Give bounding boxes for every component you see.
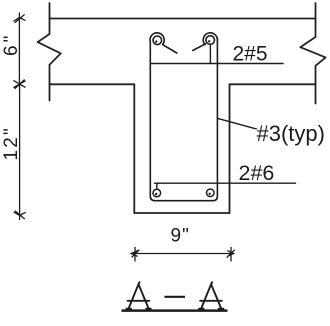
right break line <box>300 3 325 104</box>
slab bottom edge left <box>50 83 135 85</box>
top bar right (2#5) <box>206 36 215 45</box>
dimension line 9 inch <box>131 253 234 255</box>
arrow left of 9in <box>132 250 140 257</box>
arrow double at 6/12 boundary <box>14 80 25 89</box>
arrow down at 12in bottom <box>14 211 25 219</box>
left break line <box>38 3 61 101</box>
section title underline <box>122 309 228 312</box>
bottom bar right (2#6) <box>207 189 215 197</box>
section letter A right <box>199 282 223 309</box>
svg-text:6": 6" <box>1 33 22 56</box>
bottom bar left (2#6) <box>153 189 161 197</box>
stirrup #3 left leg <box>150 42 155 201</box>
leader 2#6 <box>155 183 296 189</box>
stirrup #3 right leg <box>213 38 217 201</box>
web right edge <box>229 84 231 213</box>
stirrup right hook <box>193 33 218 51</box>
svg-text:2#6: 2#6 <box>239 161 275 185</box>
web bottom edge <box>134 212 229 214</box>
svg-text:2#5: 2#5 <box>233 43 268 66</box>
svg-text:9": 9" <box>171 226 190 247</box>
web left edge <box>133 84 135 213</box>
arrow up at 6in top <box>14 15 25 23</box>
slab bottom edge right <box>230 83 316 85</box>
dimension line 6 inch <box>18 13 20 84</box>
svg-text:12": 12" <box>1 126 22 160</box>
section letter A left <box>126 282 150 309</box>
extension tick right <box>230 248 232 262</box>
svg-text:#3(typ): #3(typ) <box>257 121 325 146</box>
leader 2#5 <box>150 45 283 64</box>
stirrup #3 bottom <box>155 200 213 202</box>
section dash <box>165 296 186 298</box>
arrow right of 9in <box>227 250 234 257</box>
dimension line 12 inch <box>19 84 21 220</box>
stirrup left hook <box>150 33 177 53</box>
slab top edge <box>50 18 316 20</box>
top bar left (2#5) <box>153 36 162 45</box>
leader #3(typ) <box>217 118 256 129</box>
extension tick left <box>134 248 136 262</box>
